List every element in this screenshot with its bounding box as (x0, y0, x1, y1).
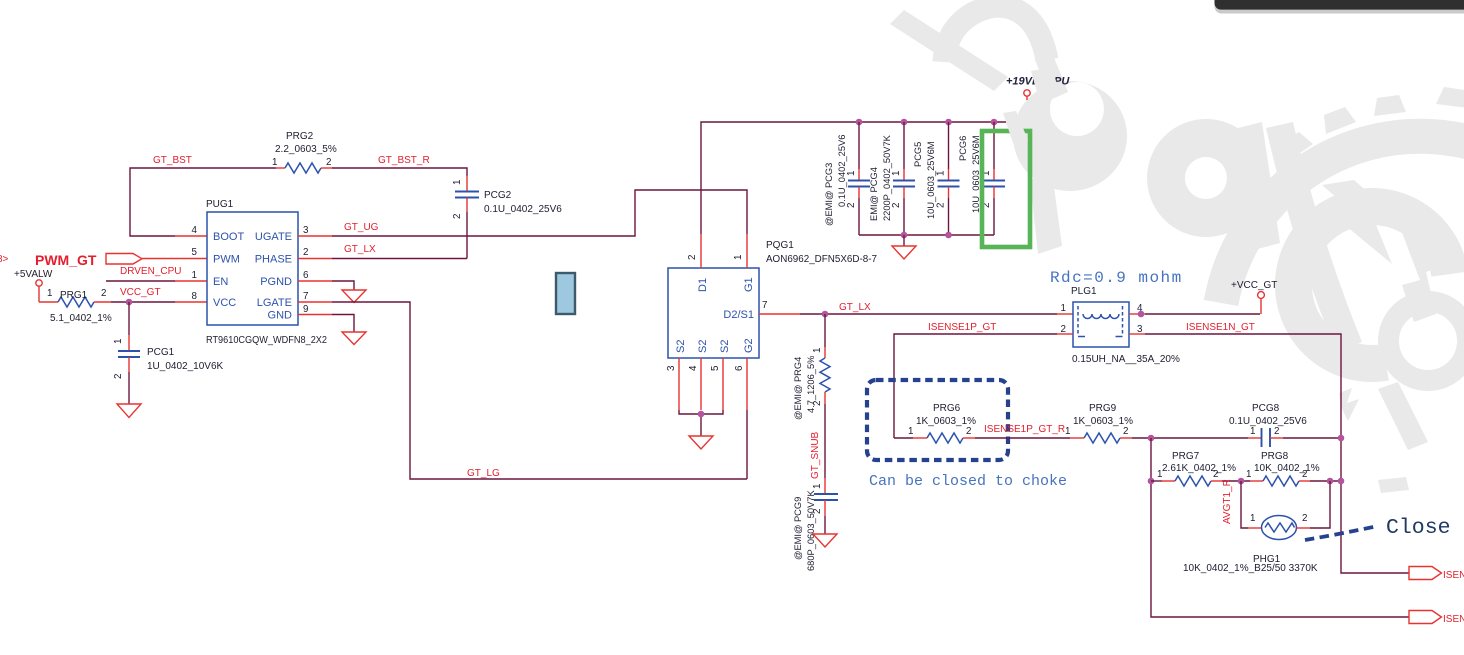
svg-text:DRVEN_CPU: DRVEN_CPU (120, 266, 182, 277)
svg-text:1: 1 (192, 270, 197, 281)
blue dashed arrow (1305, 526, 1378, 540)
svg-text:3: 3 (303, 225, 309, 236)
svg-text:+VCC_GT: +VCC_GT (1231, 280, 1277, 291)
resistor PRG1 (39, 297, 111, 307)
node PRG8 pin1 junction (1238, 478, 1245, 485)
inductor PLG1 dashed cores (1078, 306, 1123, 336)
capacitor PCG3 (848, 122, 870, 235)
svg-text:7: 7 (762, 300, 767, 311)
svg-text:1: 1 (891, 171, 902, 176)
svg-text:PQG1: PQG1 (766, 240, 794, 251)
svg-text:1U_0402_10V6K: 1U_0402_10V6K (147, 361, 224, 372)
label PCG2 pins (452, 180, 463, 219)
svg-text:2: 2 (1274, 426, 1279, 437)
svg-text:2: 2 (1123, 426, 1128, 437)
svg-text:0.1U_0402_25V6: 0.1U_0402_25V6 (484, 204, 562, 215)
wire PCG8 right (1283, 437, 1341, 439)
svg-text:2: 2 (846, 203, 857, 208)
svg-text:10U_0603_25V6M: 10U_0603_25V6M (926, 141, 936, 219)
svg-text:ISENSE1P_GT: ISENSE1P_GT (928, 322, 996, 333)
label PCG9 pins (812, 484, 823, 514)
pin stub D1 (700, 234, 702, 268)
ground cap bank (892, 246, 916, 259)
svg-text:8>: 8> (0, 254, 9, 265)
svg-text:0.1U_0402_25V6: 0.1U_0402_25V6 (837, 135, 847, 207)
pin stub VCC (175, 301, 207, 303)
black top bar (1215, 0, 1464, 10)
svg-text:1: 1 (733, 255, 744, 260)
svg-text:@EMI@ PCG9: @EMI@ PCG9 (793, 497, 803, 560)
watermark letter-p bowl tail (1030, 172, 1062, 254)
watermark letter-n arch (944, 6, 1047, 62)
svg-text:ISEN: ISEN (1443, 614, 1464, 625)
ground PGND (342, 290, 366, 303)
wire ground stem cap bank (903, 235, 905, 246)
wire DRVEN_CPU (106, 280, 175, 282)
highlight selection rectangle (556, 273, 575, 314)
svg-text:2: 2 (966, 426, 971, 437)
ground PCG9 (813, 534, 837, 547)
svg-text:5: 5 (192, 247, 198, 258)
svg-text:3: 3 (666, 365, 677, 371)
svg-text:6: 6 (734, 365, 745, 371)
node ISENSE1N vertical junction (1338, 478, 1345, 485)
wire GT_UG (332, 190, 747, 236)
ground under PCG1 (117, 404, 141, 418)
svg-text:Close C: Close C (1386, 516, 1464, 540)
svg-text:10U_0603_25V6M: 10U_0603_25V6M (971, 135, 981, 213)
svg-text:1K_0603_1%: 1K_0603_1% (1073, 416, 1133, 427)
label PCG4 pins (891, 171, 902, 208)
wire GT_SNUB (824, 404, 826, 478)
node S2 junction (698, 411, 705, 418)
connector flag PWM_GT (106, 254, 142, 265)
node PRG9 PCG8 junction (1148, 435, 1155, 442)
watermark letter o (1389, 302, 1464, 381)
watermark letter C (1293, 206, 1449, 363)
connector flag ISENSE top (1409, 567, 1442, 580)
svg-text:10K_0402_1%_B25/50 3370K: 10K_0402_1%_B25/50 3370K (1183, 563, 1318, 574)
svg-text:6: 6 (303, 270, 309, 281)
svg-text:7: 7 (303, 291, 308, 302)
watermark letter-l stroke (1266, 122, 1362, 352)
wire GT_LX main (800, 313, 1057, 315)
wire PCG2 bottom to GT_LX (466, 212, 468, 259)
wire PRG9 to junction (1132, 437, 1248, 439)
watermark diagonal band bottom (1378, 382, 1428, 450)
svg-text:BOOT: BOOT (213, 231, 244, 243)
svg-text:AON6962_DFN5X6D-8-7: AON6962_DFN5X6D-8-7 (766, 254, 877, 265)
power symbol +19VDC_PU (1024, 90, 1030, 100)
svg-text:5: 5 (710, 365, 721, 371)
wire PRG7 left (1151, 480, 1162, 482)
pin stub UGATE (298, 235, 332, 237)
svg-text:GT_LX: GT_LX (344, 244, 376, 255)
svg-text:PGND: PGND (260, 276, 292, 288)
label PRG4 pins (812, 348, 823, 406)
inductor PLG1 coil (1083, 314, 1119, 319)
wire left vertical to bottom (1151, 438, 1409, 617)
svg-text:PRG9: PRG9 (1089, 403, 1117, 414)
svg-text:1: 1 (936, 171, 947, 176)
svg-text:2: 2 (303, 247, 308, 258)
connector flag ISENSE bottom (1409, 611, 1442, 624)
wire GND pin9 (332, 315, 354, 333)
pin stub GND (298, 314, 332, 316)
watermark gear outer ring arc (1221, 136, 1464, 303)
watermark lightning bolt 2 (1398, 216, 1442, 322)
svg-text:1: 1 (113, 339, 124, 344)
svg-text:GND: GND (268, 310, 293, 322)
watermark letter-a tail (1238, 122, 1280, 250)
svg-text:4: 4 (192, 225, 198, 236)
IC PUG1 box (207, 212, 298, 325)
wire PGND (332, 281, 354, 290)
svg-text:ISENSE1P_GT_R: ISENSE1P_GT_R (984, 424, 1065, 435)
watermark bolt tail (1339, 388, 1359, 421)
pin stub PLG1 pin3 (1129, 333, 1145, 335)
wire PRG4 top (824, 314, 826, 347)
resistor PRG4 (820, 347, 830, 404)
node VCC_GT junction (126, 299, 133, 306)
node rail PCG4 (901, 119, 908, 126)
svg-text:PWM: PWM (213, 254, 240, 266)
wire PHG1 left branch (1241, 481, 1248, 528)
svg-text:Can be closed to choke: Can be closed to choke (869, 473, 1067, 490)
svg-text:9: 9 (303, 304, 308, 315)
svg-text:PWM_GT: PWM_GT (35, 252, 97, 268)
svg-text:1: 1 (47, 288, 52, 299)
capacitor PCG8 (1248, 428, 1283, 447)
green highlight rectangle around PCG6 (982, 131, 1030, 247)
wire G2 down (746, 410, 748, 479)
transistor PQG1 box (668, 268, 759, 358)
svg-text:@EMI@ PRG4: @EMI@ PRG4 (793, 357, 803, 420)
svg-text:+5VALW: +5VALW (14, 269, 53, 280)
svg-text:PCG6: PCG6 (958, 136, 968, 161)
node PLG1 pin4 junction (1138, 311, 1145, 318)
wire GT_LX phase (332, 258, 467, 260)
svg-text:@EMI@ PCG3: @EMI@ PCG3 (824, 163, 834, 226)
wire PCG1 top (128, 302, 130, 335)
svg-text:1: 1 (846, 171, 857, 176)
node GT_LX junction (822, 311, 829, 318)
wire +VCC_GT (1145, 313, 1260, 315)
svg-text:GT_LX: GT_LX (839, 302, 871, 313)
capacitor PCG4 (893, 122, 915, 235)
svg-text:D2/S1: D2/S1 (723, 309, 754, 321)
pin stub PLG1 pin2 (1057, 333, 1073, 335)
wire ISENSE1P_GT (894, 334, 1057, 438)
svg-text:GT_UG: GT_UG (344, 222, 379, 233)
node bottom rail PCG4 (901, 232, 908, 239)
svg-text:8: 8 (192, 291, 198, 302)
pin stub PLG1 pin4 (1129, 313, 1145, 315)
resistor PRG9 (1070, 433, 1132, 443)
watermark arch leg (1036, 55, 1068, 100)
svg-text:ISEN: ISEN (1443, 570, 1464, 581)
svg-text:Rdc=0.9 mohm: Rdc=0.9 mohm (1050, 269, 1183, 287)
svg-text:PCG5: PCG5 (913, 142, 923, 167)
power symbol +5VALW (36, 280, 42, 302)
wire GT_LG (332, 302, 747, 479)
svg-text:PRG6: PRG6 (933, 403, 961, 414)
wire PWM (142, 258, 207, 260)
watermark letter-p bowl (1013, 81, 1127, 191)
svg-text:1: 1 (1250, 426, 1255, 437)
watermark gear teeth (1281, 87, 1464, 162)
svg-text:2: 2 (936, 203, 947, 208)
svg-text:PRG8: PRG8 (1261, 451, 1289, 462)
svg-text:PCG2: PCG2 (484, 190, 512, 201)
wire GT_BST_R (332, 168, 467, 176)
wire +19V vertical and top rail (701, 122, 1009, 234)
svg-text:PLG1: PLG1 (1071, 286, 1097, 297)
watermark letter-a bowl (1147, 119, 1265, 237)
label PCG3 pins (846, 171, 857, 208)
svg-text:UGATE: UGATE (255, 231, 292, 243)
pin stub EN (175, 280, 207, 282)
node PRG7 pin1 junction (1148, 478, 1155, 485)
svg-text:2200P_0402_50V7K: 2200P_0402_50V7K (882, 134, 892, 221)
wire PRG6 left (894, 437, 913, 439)
svg-text:GT_LG: GT_LG (467, 468, 500, 479)
pin stub D2/S1 (759, 313, 800, 315)
label PCG1 pins (113, 339, 124, 379)
svg-text:AVGT1_R: AVGT1_R (1222, 479, 1233, 524)
svg-text:GT_BST: GT_BST (153, 155, 192, 166)
pin stub LGATE (298, 301, 332, 303)
svg-text:PHASE: PHASE (255, 254, 292, 266)
wire ISENSE1P_GT_R (975, 437, 1070, 439)
svg-text:2: 2 (326, 157, 331, 168)
svg-text:10K_0402_1%: 10K_0402_1% (1254, 463, 1320, 474)
pin stub BOOT (175, 235, 207, 237)
pin stub G1 (746, 234, 748, 268)
ground S2 (689, 436, 713, 449)
pin stub PHASE (298, 258, 332, 260)
node rail PCG6 (991, 119, 998, 126)
svg-text:1K_0603_1%: 1K_0603_1% (916, 416, 976, 427)
svg-text:0.15UH_NA__35A_20%: 0.15UH_NA__35A_20% (1072, 354, 1180, 365)
svg-text:1: 1 (812, 348, 823, 353)
svg-text:S2: S2 (697, 340, 709, 353)
svg-text:2: 2 (687, 255, 698, 260)
svg-text:GT_SNUB: GT_SNUB (810, 431, 821, 479)
wire PHG1 right branch (1310, 481, 1330, 528)
wire PRG8 right (1310, 480, 1341, 482)
svg-text:1: 1 (812, 484, 823, 489)
label PCG5 pins (936, 171, 947, 208)
svg-text:1: 1 (1065, 426, 1070, 437)
svg-text:D1: D1 (697, 278, 709, 292)
wire S2 join (679, 410, 723, 436)
svg-text:2.61K_0402_1%: 2.61K_0402_1% (1162, 463, 1236, 474)
power symbol +VCC_GT (1258, 292, 1265, 314)
svg-text:PCG8: PCG8 (1252, 403, 1280, 414)
pin stub S2 pin3 (678, 358, 680, 410)
pin stub S2 pin4 (700, 358, 702, 410)
svg-text:ISENSE1N_GT: ISENSE1N_GT (1186, 322, 1255, 333)
svg-text:4: 4 (688, 365, 699, 371)
svg-text:1: 1 (452, 180, 463, 185)
capacitor PCG2 (455, 176, 479, 212)
svg-text:680P_0603_50V7K: 680P_0603_50V7K (806, 490, 816, 571)
label PCG6 pins (981, 171, 992, 208)
svg-text:G1: G1 (743, 277, 755, 292)
svg-text:PUG1: PUG1 (206, 199, 234, 210)
node rail PCG3 (856, 119, 863, 126)
watermark lightning bolt 1 (1322, 180, 1392, 264)
svg-text:VCC_GT: VCC_GT (120, 287, 161, 298)
ground GND pin9 (342, 332, 366, 345)
capacitor PCG9 (814, 478, 838, 516)
wire VCC_GT (111, 301, 175, 303)
resistor PRG8 (1250, 476, 1310, 486)
svg-text:2: 2 (452, 214, 463, 219)
svg-text:PRG7: PRG7 (1172, 451, 1200, 462)
svg-text:EMI@ PCG4: EMI@ PCG4 (869, 167, 879, 221)
svg-text:PCG1: PCG1 (147, 347, 175, 358)
node PCG8 right junction (1338, 435, 1345, 442)
svg-text:EN: EN (213, 276, 228, 288)
svg-text:GT_BST_R: GT_BST_R (378, 155, 430, 166)
wire PRG7 to PRG8 (1222, 480, 1250, 482)
svg-text:1: 1 (1246, 469, 1251, 480)
svg-text:2: 2 (1302, 513, 1307, 524)
svg-text:5.1_0402_1%: 5.1_0402_1% (50, 313, 112, 324)
svg-text:2.2_0603_5%: 2.2_0603_5% (275, 144, 337, 155)
wire ISENSE1N_GT (1145, 334, 1409, 573)
svg-text:LGATE: LGATE (257, 297, 292, 309)
resistor PRG7 (1162, 476, 1222, 486)
resistor PRG6 (913, 433, 975, 443)
capacitor PCG5 (938, 122, 960, 235)
svg-text:2: 2 (113, 374, 124, 379)
capacitor PCG1 (118, 335, 140, 372)
capacitor PCG6 (983, 122, 1005, 235)
svg-text:1: 1 (1250, 513, 1255, 524)
svg-text:0.1U_0402_25V6: 0.1U_0402_25V6 (1229, 416, 1307, 427)
wire PCG1 bottom (128, 372, 130, 404)
svg-text:S2: S2 (719, 340, 731, 353)
pin stub G2 pin6 (746, 358, 748, 410)
watermark overlay text patch (1031, 67, 1058, 92)
resistor PRG2 (276, 163, 332, 173)
watermark letter-m diagonal stroke (890, 10, 1008, 91)
svg-text:2: 2 (101, 288, 106, 299)
node bottom rail PCG5 (945, 232, 952, 239)
svg-text:VCC: VCC (213, 297, 236, 309)
pin stub S2 pin5 (722, 358, 724, 410)
svg-text:1: 1 (272, 157, 277, 168)
dashed blue rectangle around PRG6 (867, 380, 1008, 460)
svg-text:RT9610CGQW_WDFN8_2X2: RT9610CGQW_WDFN8_2X2 (206, 335, 327, 346)
thermistor PHG1 (1248, 516, 1310, 540)
pin stub PGND (298, 280, 332, 282)
wire cap bank bottom rail (859, 234, 994, 236)
black top bar shadow (1215, 0, 1464, 14)
inductor PLG1 box (1073, 302, 1129, 347)
svg-text:1: 1 (908, 426, 913, 437)
pin stub PLG1 pin1 (1057, 313, 1073, 315)
svg-text:4.7_1206_5%: 4.7_1206_5% (806, 356, 816, 413)
watermark small blob bottom (1378, 477, 1409, 493)
wire GT_BST (130, 168, 276, 236)
svg-text:PRG2: PRG2 (286, 131, 314, 142)
svg-text:2: 2 (891, 203, 902, 208)
watermark overlay rail-green patch (1003, 111, 1028, 143)
wire PCG9 bottom (824, 516, 826, 534)
svg-text:G2: G2 (743, 338, 755, 353)
svg-text:PRG1: PRG1 (60, 290, 88, 301)
node PRG8 pin2 junction (1327, 478, 1334, 485)
node rail PCG5 (945, 119, 952, 126)
svg-text:S2: S2 (675, 340, 687, 353)
svg-text:1: 1 (1061, 303, 1066, 314)
